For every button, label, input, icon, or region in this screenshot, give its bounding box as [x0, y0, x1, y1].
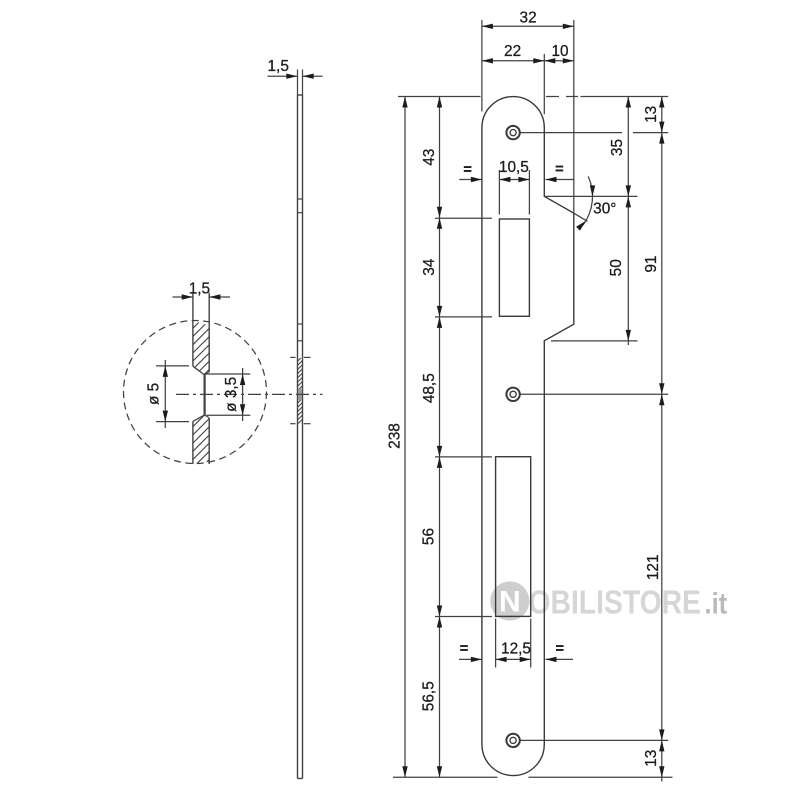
svg-text:121: 121 [645, 554, 662, 580]
svg-text:30°: 30° [593, 201, 616, 218]
svg-text:56: 56 [420, 528, 437, 545]
svg-text:50: 50 [608, 259, 625, 276]
svg-text:13: 13 [643, 750, 660, 767]
svg-text:56,5: 56,5 [421, 681, 438, 711]
svg-text:1,5: 1,5 [267, 58, 288, 75]
svg-text:22: 22 [504, 43, 521, 60]
svg-text:1,5: 1,5 [189, 280, 210, 297]
svg-text:12,5: 12,5 [501, 641, 531, 658]
svg-text:10,5: 10,5 [499, 159, 529, 176]
svg-text:N: N [499, 586, 521, 619]
svg-text:34: 34 [421, 258, 438, 276]
svg-text:91: 91 [643, 256, 660, 273]
svg-text:10: 10 [551, 43, 568, 60]
svg-text:48,5: 48,5 [421, 373, 438, 403]
svg-text:ø 5: ø 5 [145, 383, 162, 405]
svg-text:32: 32 [520, 9, 537, 26]
svg-text:238: 238 [386, 423, 403, 449]
svg-text:OBILISTORE: OBILISTORE [529, 583, 701, 621]
svg-text:43: 43 [421, 149, 438, 166]
svg-text:13: 13 [643, 106, 660, 123]
svg-text:ø 3,5: ø 3,5 [223, 377, 240, 412]
svg-text:35: 35 [609, 139, 626, 156]
svg-text:.it: .it [705, 587, 728, 620]
